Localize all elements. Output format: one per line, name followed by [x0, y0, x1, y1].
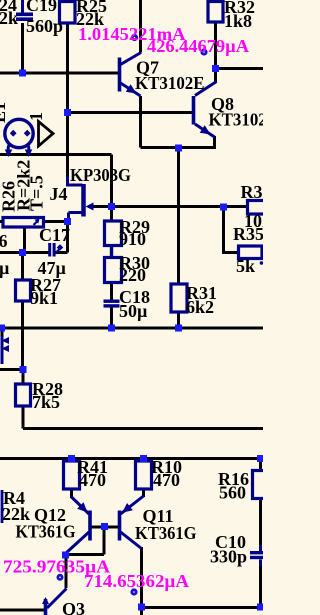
svg-text:KT3102E: KT3102E: [209, 110, 264, 130]
svg-text:470: 470: [79, 470, 106, 490]
svg-text:220: 220: [119, 265, 146, 285]
svg-text:J4: J4: [50, 184, 68, 204]
svg-text:7k5: 7k5: [32, 392, 60, 412]
svg-text:KT361G: KT361G: [135, 523, 197, 543]
svg-text:C17: C17: [39, 225, 70, 245]
svg-text:1: 1: [26, 112, 46, 121]
svg-text:Q3: Q3: [62, 599, 85, 615]
svg-text:560p: 560p: [26, 16, 63, 36]
svg-text:KT361G: KT361G: [16, 522, 76, 542]
svg-text:R33: R33: [241, 182, 264, 202]
svg-text:6: 6: [0, 231, 8, 251]
svg-text:910: 910: [119, 229, 146, 249]
svg-text:5k: 5k: [236, 256, 255, 276]
svg-text:2k: 2k: [0, 8, 18, 28]
svg-text:50µ: 50µ: [119, 301, 148, 321]
svg-text:714.65362µA: 714.65362µA: [84, 571, 189, 591]
svg-text:T=.5: T=.5: [27, 175, 47, 211]
svg-text:1k8: 1k8: [224, 11, 252, 31]
svg-text:E1: E1: [0, 102, 9, 123]
svg-text:560: 560: [219, 483, 246, 503]
svg-text:C19: C19: [26, 0, 57, 15]
svg-text:9k1: 9k1: [30, 288, 58, 308]
svg-text:426.44679µA: 426.44679µA: [147, 36, 249, 56]
svg-text:330p: 330p: [210, 547, 247, 567]
svg-text:KT3102E: KT3102E: [135, 73, 205, 93]
svg-text:µ: µ: [0, 258, 10, 278]
svg-text:6k2: 6k2: [186, 297, 214, 317]
svg-text:R35: R35: [233, 224, 263, 244]
svg-text:KP303G: KP303G: [70, 165, 131, 185]
svg-text:470: 470: [153, 470, 180, 490]
